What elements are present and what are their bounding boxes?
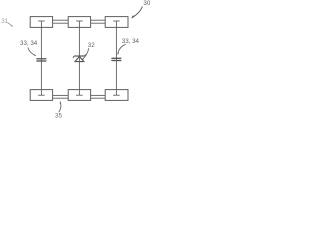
svg-text:33, 34: 33, 34 bbox=[122, 38, 140, 45]
svg-text:33, 34: 33, 34 bbox=[20, 40, 38, 47]
svg-text:30: 30 bbox=[143, 0, 150, 7]
svg-text:35: 35 bbox=[55, 113, 62, 120]
svg-text:31: 31 bbox=[1, 18, 8, 25]
svg-text:32: 32 bbox=[88, 42, 95, 49]
